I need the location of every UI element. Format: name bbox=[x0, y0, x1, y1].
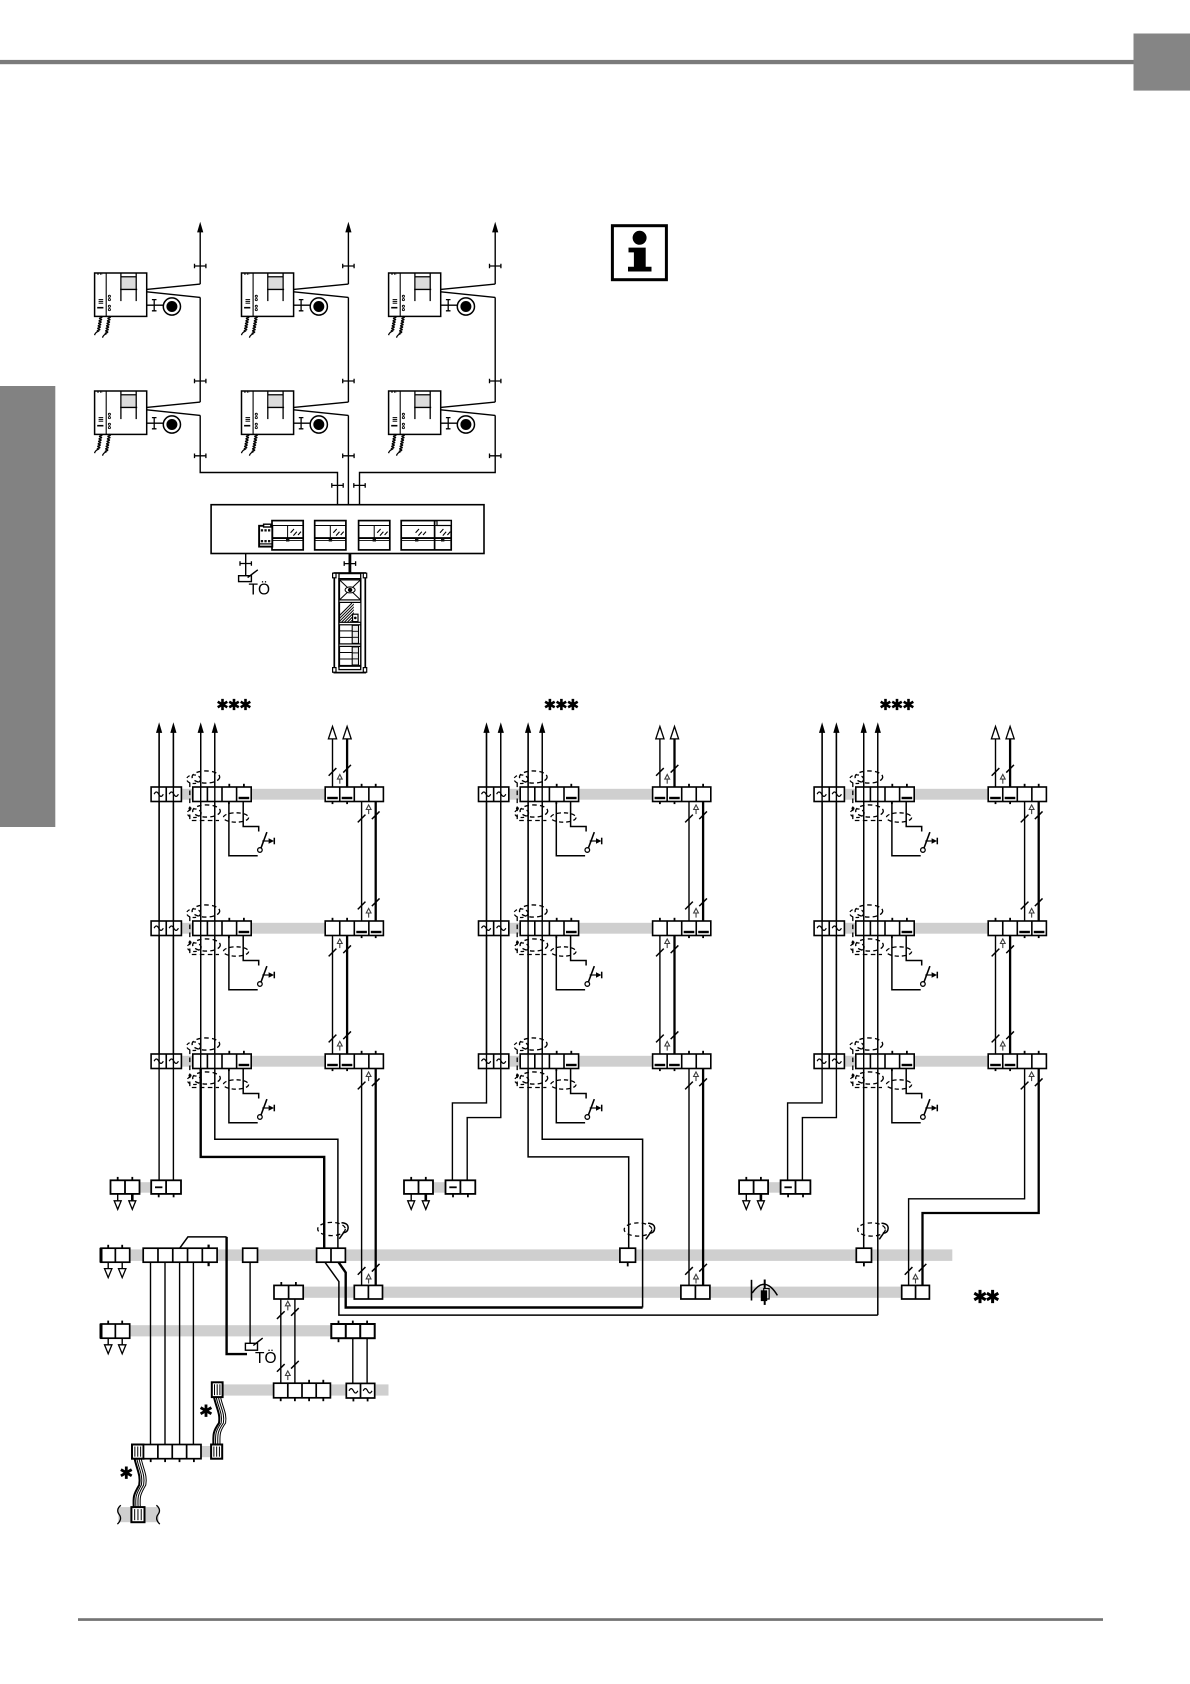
cable loop at block3 terminal bbox=[858, 1223, 888, 1239]
house telephone HT2 bbox=[241, 273, 327, 338]
mains tail wires block 3 bbox=[788, 1069, 837, 1181]
floor row terminal group block1 row2 bbox=[151, 918, 383, 938]
ground bus 3 bar bbox=[303, 1287, 902, 1298]
terminal G bbox=[274, 1380, 331, 1401]
main terminal B bbox=[143, 1245, 217, 1267]
link wire to block 2 bbox=[339, 1262, 643, 1307]
mains riser wires block 1 bbox=[156, 722, 177, 1068]
bus riser wires block 2 bbox=[525, 722, 545, 1068]
floor row terminal group block3 row2 bbox=[814, 918, 1046, 938]
terminal block2 video bbox=[681, 1285, 710, 1299]
video pair floor3-2 block 3 bbox=[1021, 802, 1043, 922]
floor distributor group block 1 bbox=[111, 1177, 182, 1210]
bus riser tail wires block 1 bbox=[201, 1069, 338, 1249]
left margin chapter bar bbox=[0, 386, 55, 827]
video pair floor2-1 block 1 bbox=[329, 936, 351, 1055]
ribbon cable upper bbox=[213, 1397, 226, 1444]
ground bus 2 bar bbox=[103, 1325, 375, 1336]
storey call button block1 row1 bbox=[229, 802, 274, 856]
cable loops block1 row3 bbox=[187, 1038, 249, 1089]
mains riser wires block 2 bbox=[483, 722, 504, 1068]
bus riser wires block 3 bbox=[861, 722, 881, 1068]
video tail pair block 2 bbox=[685, 1069, 707, 1286]
terminal E bbox=[274, 1282, 303, 1383]
video pair floor3-2 block 1 bbox=[358, 802, 380, 922]
video trunk head block 1 bbox=[328, 727, 351, 788]
cable loops block3 row2 bbox=[850, 905, 912, 956]
outgoing cable bar bbox=[118, 1507, 158, 1522]
storey call button block2 row2 bbox=[556, 936, 601, 990]
ground bus 1 bar bbox=[103, 1249, 952, 1261]
cable loop at terminal I bbox=[318, 1222, 348, 1238]
storey call button block2 row3 bbox=[556, 1069, 601, 1123]
floor row terminal group block2 row3 bbox=[479, 1051, 711, 1071]
door opener stub wire bbox=[245, 554, 247, 576]
storey call button block3 row1 bbox=[892, 802, 937, 856]
floor row terminal group block1 row3 bbox=[151, 1051, 383, 1071]
earth terminal A bbox=[101, 1245, 130, 1278]
storey call button block1 row3 bbox=[229, 1069, 274, 1123]
label * lower bbox=[121, 1467, 132, 1479]
door station feed wire bbox=[348, 554, 351, 573]
supply module N2 bbox=[315, 521, 346, 550]
house telephone HT4 bbox=[95, 391, 181, 456]
terminal K bbox=[902, 1285, 930, 1299]
collector terminal block3 bbox=[856, 1248, 871, 1266]
door station bbox=[331, 573, 387, 673]
terminal C bbox=[243, 1248, 258, 1343]
house telephone HT5 bbox=[241, 391, 327, 456]
mains tail wires block 2 bbox=[452, 1069, 500, 1181]
bus riser wires block 1 bbox=[198, 722, 218, 1068]
supply module N1 bbox=[272, 521, 303, 550]
earth terminal D bbox=[101, 1321, 130, 1354]
video pair floor3-2 block 2 bbox=[685, 802, 707, 922]
cable loops block2 row2 bbox=[514, 905, 576, 956]
svg-text:TÖ: TÖ bbox=[255, 1349, 277, 1367]
floor distributor group block 3 bbox=[739, 1177, 810, 1210]
cable loop at block2 terminal bbox=[624, 1223, 654, 1239]
sounder on bus 3 bbox=[752, 1280, 778, 1305]
info note icon bbox=[612, 226, 666, 280]
bus riser tail wires block 2 bbox=[528, 1069, 643, 1308]
mains riser wires block 3 bbox=[819, 722, 840, 1068]
door opener TO symbol bbox=[239, 570, 270, 599]
ribbon connector on bus 4 bbox=[212, 1382, 223, 1397]
connector strip gray gap bbox=[201, 1446, 211, 1457]
riser block 3 label *** bbox=[881, 699, 914, 710]
riser block 1 label *** bbox=[218, 699, 251, 710]
cable loops block3 row3 bbox=[850, 1038, 912, 1089]
video pair floor2-1 block 3 bbox=[992, 936, 1014, 1055]
storey call button block3 row3 bbox=[892, 1069, 937, 1123]
door opener TO symbol bottom bbox=[245, 1338, 276, 1367]
distribution box bbox=[211, 505, 484, 554]
page footer rule bbox=[78, 1618, 1103, 1621]
floor row terminal group block2 row2 bbox=[479, 918, 711, 938]
outgoing cable connector bbox=[117, 1505, 159, 1524]
storey call button block2 row1 bbox=[556, 802, 601, 856]
ribbon cable lower bbox=[134, 1459, 147, 1507]
video tail pair block 1 bbox=[358, 1069, 380, 1286]
cable loops block2 row3 bbox=[514, 1038, 576, 1089]
in-house bus riser column 2 bbox=[294, 222, 355, 505]
cable loops block1 row1 bbox=[187, 771, 249, 822]
svg-text:TÖ: TÖ bbox=[249, 581, 271, 599]
mains terminal on bus 4 bbox=[346, 1383, 374, 1401]
riser block 2 label *** bbox=[545, 699, 578, 710]
storey call button block3 row2 bbox=[892, 936, 937, 990]
video trunk head block 2 bbox=[656, 727, 679, 788]
floor row terminal group block1 row1 bbox=[151, 784, 383, 804]
link wire to block 3 bbox=[325, 1262, 878, 1315]
cable loops block2 row1 bbox=[514, 771, 576, 822]
door opener riser wire bbox=[180, 1237, 247, 1354]
label * upper bbox=[201, 1405, 212, 1417]
terminal adapter module bbox=[259, 524, 272, 546]
bus riser tail wires block 3 bbox=[864, 1069, 878, 1316]
ground bus 4 bar bbox=[212, 1384, 389, 1395]
house telephone HT1 bbox=[95, 273, 181, 338]
floor row terminal group block3 row1 bbox=[814, 784, 1046, 804]
connector strip bbox=[132, 1445, 222, 1463]
supply module N3 bbox=[359, 521, 390, 550]
page corner tab bbox=[1134, 34, 1190, 91]
floor row terminal group block3 row3 bbox=[814, 1051, 1046, 1071]
house telephone HT3 bbox=[389, 273, 475, 338]
in-house bus riser column 3 bbox=[354, 222, 501, 505]
house telephone HT6 bbox=[389, 391, 475, 456]
riser wires overlay block 2 bbox=[487, 731, 543, 1069]
terminal H bbox=[331, 1321, 374, 1384]
terminal B downlink wires bbox=[151, 1262, 194, 1444]
collector terminal block2 bbox=[620, 1248, 636, 1266]
floor distributor group block 2 bbox=[404, 1177, 475, 1210]
collector terminal I bbox=[317, 1248, 346, 1262]
cable loops block1 row2 bbox=[187, 905, 249, 956]
double controller module bbox=[401, 521, 451, 550]
video tail pair block 3 bbox=[905, 1069, 1043, 1286]
storey call button block1 row2 bbox=[229, 936, 274, 990]
terminal J bbox=[354, 1285, 382, 1299]
in-house bus riser column 1 bbox=[147, 222, 344, 505]
cable loops block3 row1 bbox=[850, 771, 912, 822]
riser wires overlay block 1 bbox=[159, 731, 215, 1069]
page header rule bbox=[0, 60, 1134, 64]
riser wires overlay block 3 bbox=[822, 731, 878, 1069]
video trunk head block 3 bbox=[991, 727, 1014, 788]
video pair floor2-1 block 2 bbox=[656, 936, 678, 1055]
mains tail wires block 1 bbox=[159, 1069, 173, 1181]
floor row terminal group block2 row1 bbox=[479, 784, 711, 804]
label ** bbox=[974, 1290, 998, 1303]
